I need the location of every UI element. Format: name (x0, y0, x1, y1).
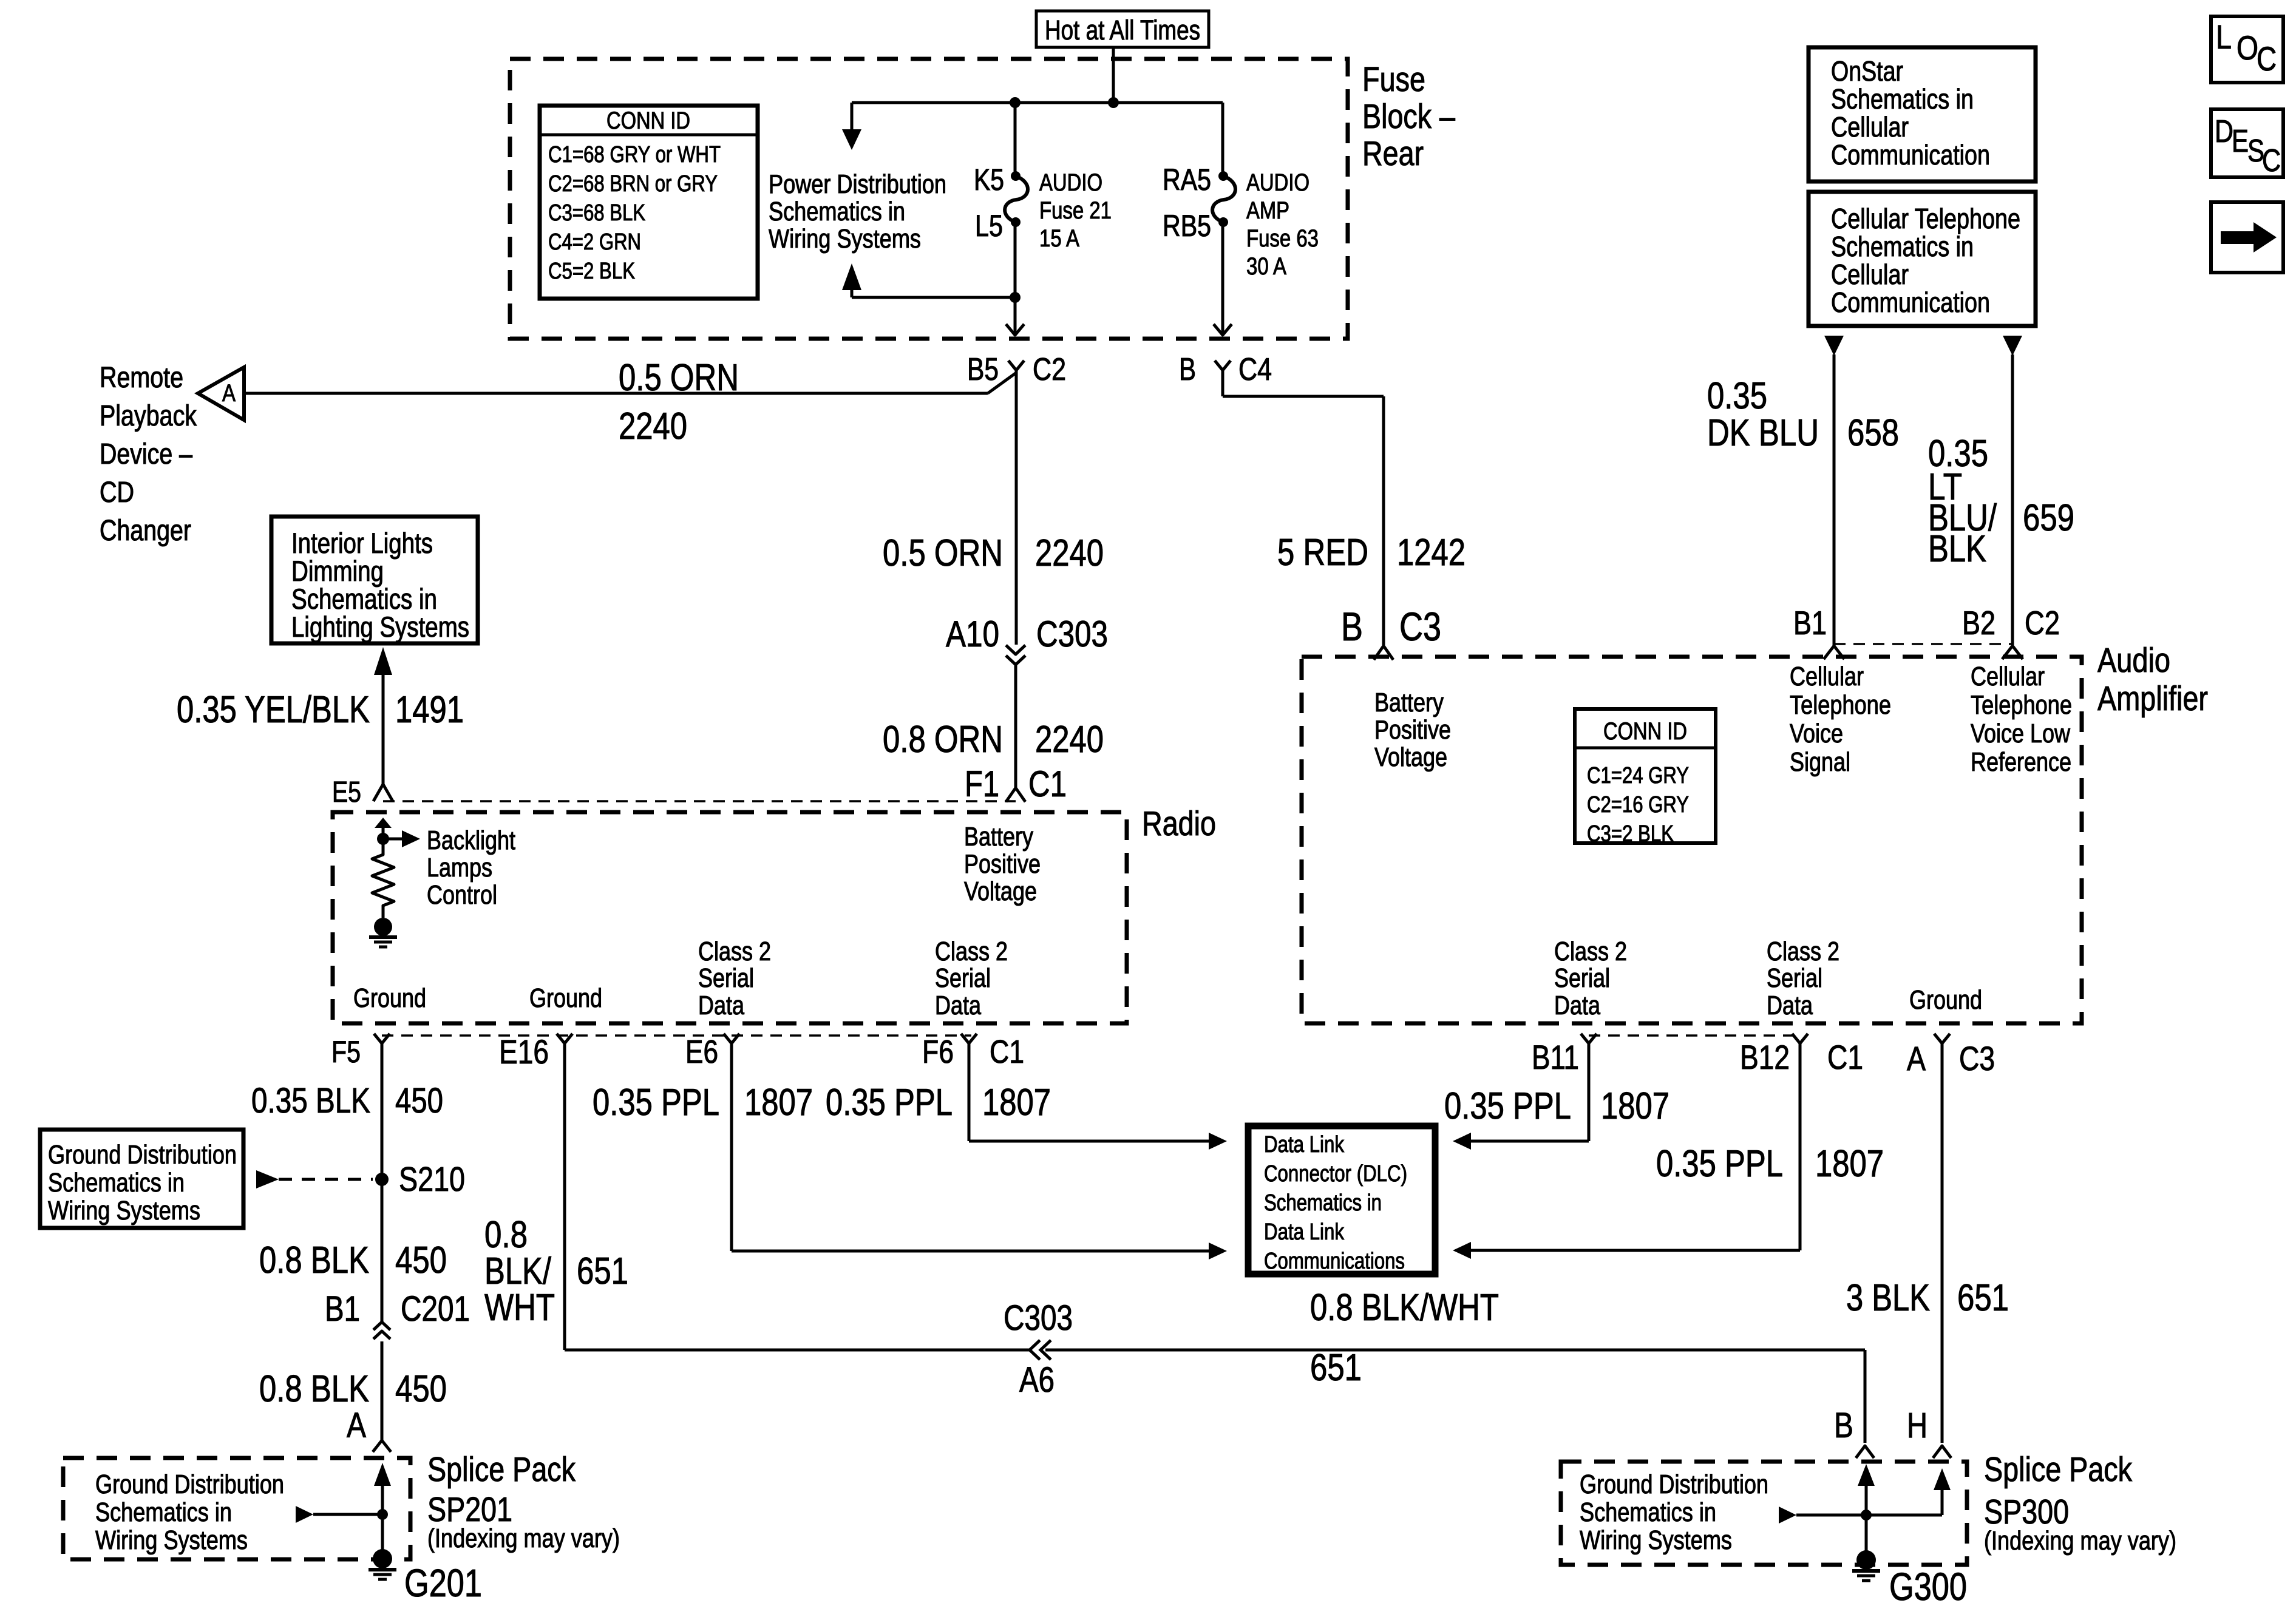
svg-text:C1=24 GRY: C1=24 GRY (1587, 763, 1689, 788)
svg-text:Wiring Systems: Wiring Systems (769, 224, 921, 254)
svg-text:Schematics in: Schematics in (1831, 231, 1974, 262)
svg-text:Lighting Systems: Lighting Systems (291, 611, 469, 643)
svg-text:Block –: Block – (1362, 97, 1455, 136)
svg-text:O: O (2237, 29, 2258, 67)
svg-text:Voltage: Voltage (1374, 742, 1447, 772)
svg-text:B2: B2 (1962, 604, 1995, 642)
svg-text:OnStar: OnStar (1831, 55, 1903, 87)
svg-text:Cellular Telephone: Cellular Telephone (1831, 203, 2020, 234)
svg-text:0.35 PPL: 0.35 PPL (1444, 1085, 1571, 1127)
svg-text:(Indexing may vary): (Indexing may vary) (1984, 1526, 2176, 1556)
svg-text:Audio: Audio (2097, 641, 2170, 680)
svg-text:Serial: Serial (935, 963, 991, 993)
svg-text:B11: B11 (1532, 1038, 1579, 1076)
svg-text:Fuse: Fuse (1362, 60, 1425, 99)
svg-text:Class 2: Class 2 (935, 937, 1008, 966)
svg-text:Lamps: Lamps (427, 853, 492, 883)
svg-text:Positive: Positive (1374, 715, 1451, 745)
svg-text:Cellular: Cellular (1831, 259, 1909, 290)
svg-text:Cellular: Cellular (1971, 662, 2045, 691)
svg-text:0.8 BLK/WHT: 0.8 BLK/WHT (1310, 1287, 1499, 1329)
svg-text:659: 659 (2023, 497, 2074, 539)
svg-text:1807: 1807 (744, 1082, 813, 1124)
svg-text:1807: 1807 (1815, 1143, 1884, 1185)
svg-text:Telephone: Telephone (1971, 690, 2072, 720)
svg-text:L: L (2216, 18, 2232, 56)
svg-text:A: A (1907, 1039, 1926, 1077)
svg-text:0.8 BLK: 0.8 BLK (259, 1368, 369, 1410)
svg-text:AUDIO: AUDIO (1246, 169, 1309, 196)
svg-text:2240: 2240 (1035, 532, 1104, 574)
svg-text:C2=68 BRN or GRY: C2=68 BRN or GRY (548, 171, 718, 197)
svg-text:0.8 ORN: 0.8 ORN (883, 719, 1003, 761)
svg-text:C4: C4 (1238, 352, 1272, 387)
svg-text:Cellular: Cellular (1790, 662, 1864, 691)
svg-text:A10: A10 (946, 614, 999, 654)
svg-text:Fuse 21: Fuse 21 (1039, 197, 1112, 224)
svg-text:RB5: RB5 (1163, 209, 1211, 243)
svg-text:Voice Low: Voice Low (1971, 719, 2070, 748)
svg-text:C3: C3 (1399, 604, 1441, 649)
svg-text:Battery: Battery (964, 822, 1033, 852)
svg-text:Device –: Device – (100, 438, 192, 470)
svg-text:Playback: Playback (100, 400, 197, 432)
svg-text:Ground: Ground (353, 983, 426, 1013)
svg-text:Schematics in: Schematics in (769, 197, 905, 226)
svg-text:B: B (1179, 352, 1196, 387)
svg-text:5 RED: 5 RED (1277, 532, 1368, 574)
svg-text:L5: L5 (975, 209, 1003, 243)
svg-text:F1: F1 (965, 764, 999, 804)
svg-text:C4=2 GRN: C4=2 GRN (548, 229, 641, 255)
svg-text:B: B (1341, 604, 1363, 649)
svg-text:C2: C2 (2025, 604, 2060, 642)
svg-text:G201: G201 (404, 1561, 482, 1605)
svg-text:A: A (222, 380, 236, 407)
svg-text:BLK/: BLK/ (484, 1250, 552, 1292)
svg-text:E: E (2232, 124, 2249, 159)
svg-text:0.35 PPL: 0.35 PPL (826, 1082, 953, 1124)
svg-text:DK BLU: DK BLU (1707, 412, 1819, 454)
svg-text:Ground Distribution: Ground Distribution (48, 1140, 237, 1170)
svg-text:G300: G300 (1889, 1565, 1967, 1609)
svg-text:Control: Control (427, 880, 497, 910)
svg-text:651: 651 (577, 1250, 628, 1292)
svg-text:Backlight: Backlight (427, 825, 515, 855)
svg-text:C303: C303 (1004, 1298, 1073, 1338)
svg-text:C1=68 GRY or WHT: C1=68 GRY or WHT (548, 142, 721, 168)
svg-text:Wiring Systems: Wiring Systems (48, 1196, 200, 1225)
svg-text:A6: A6 (1019, 1360, 1055, 1400)
svg-text:D: D (2215, 114, 2233, 149)
svg-text:Connector (DLC): Connector (DLC) (1264, 1161, 1407, 1187)
svg-text:30 A: 30 A (1246, 253, 1286, 280)
svg-text:CD: CD (100, 476, 134, 509)
svg-text:0.35: 0.35 (1707, 375, 1767, 417)
svg-text:1807: 1807 (1601, 1085, 1669, 1127)
svg-text:Data: Data (1767, 991, 1813, 1020)
svg-text:450: 450 (395, 1081, 443, 1120)
svg-text:651: 651 (1310, 1347, 1362, 1389)
svg-text:Radio: Radio (1142, 804, 1216, 843)
svg-text:Splice Pack: Splice Pack (427, 1450, 576, 1489)
svg-text:B: B (1834, 1406, 1853, 1445)
svg-text:Remote: Remote (100, 362, 183, 394)
svg-text:Rear: Rear (1362, 134, 1424, 173)
svg-text:0.35 YEL/BLK: 0.35 YEL/BLK (177, 689, 370, 731)
svg-text:Data: Data (698, 991, 744, 1020)
svg-text:C1: C1 (1827, 1038, 1863, 1076)
svg-text:Power Distribution: Power Distribution (769, 169, 946, 199)
svg-text:Positive: Positive (964, 849, 1041, 879)
svg-text:E16: E16 (499, 1032, 549, 1071)
svg-text:3 BLK: 3 BLK (1846, 1277, 1930, 1319)
svg-text:C303: C303 (1036, 614, 1108, 654)
svg-text:C201: C201 (401, 1289, 470, 1329)
svg-text:Data Link: Data Link (1264, 1132, 1345, 1158)
svg-text:S210: S210 (399, 1160, 465, 1199)
svg-text:0.5 ORN: 0.5 ORN (619, 357, 739, 399)
svg-text:Schematics in: Schematics in (1580, 1497, 1716, 1527)
svg-text:Communications: Communications (1264, 1249, 1405, 1274)
svg-text:(Indexing may vary): (Indexing may vary) (427, 1524, 620, 1553)
svg-text:C3: C3 (1959, 1039, 1995, 1077)
svg-text:CONN ID: CONN ID (1603, 718, 1687, 745)
svg-text:C3=68 BLK: C3=68 BLK (548, 200, 645, 226)
svg-text:Ground Distribution: Ground Distribution (1580, 1470, 1768, 1499)
svg-text:Hot at All Times: Hot at All Times (1045, 15, 1200, 46)
svg-text:0.35 PPL: 0.35 PPL (593, 1082, 719, 1124)
svg-text:Communication: Communication (1831, 286, 1990, 318)
svg-text:2240: 2240 (619, 405, 687, 447)
svg-text:Splice Pack: Splice Pack (1984, 1450, 2132, 1489)
svg-text:AUDIO: AUDIO (1039, 169, 1102, 196)
svg-text:C1: C1 (990, 1034, 1024, 1070)
svg-text:C5=2 BLK: C5=2 BLK (548, 259, 635, 284)
svg-text:Schematics in: Schematics in (95, 1497, 232, 1527)
svg-text:B1: B1 (325, 1289, 360, 1329)
svg-text:Serial: Serial (1554, 963, 1610, 993)
svg-text:Battery: Battery (1374, 688, 1444, 717)
svg-text:RA5: RA5 (1163, 163, 1211, 197)
svg-text:0.5 ORN: 0.5 ORN (883, 532, 1003, 574)
svg-text:C2: C2 (1033, 352, 1066, 387)
svg-text:Serial: Serial (1767, 963, 1822, 993)
svg-text:C2=16 GRY: C2=16 GRY (1587, 792, 1689, 818)
svg-text:Telephone: Telephone (1790, 690, 1891, 720)
svg-text:Schematics in: Schematics in (1264, 1190, 1382, 1216)
svg-text:1491: 1491 (395, 689, 464, 731)
svg-text:WHT: WHT (484, 1287, 555, 1329)
svg-text:C: C (2257, 39, 2277, 78)
svg-text:651: 651 (1957, 1277, 2009, 1319)
svg-text:F5: F5 (331, 1035, 361, 1069)
svg-text:15 A: 15 A (1039, 225, 1079, 252)
svg-text:BLK: BLK (1928, 528, 1986, 570)
svg-text:Schematics in: Schematics in (48, 1168, 185, 1198)
svg-text:B12: B12 (1740, 1038, 1790, 1076)
svg-text:C3=2 BLK: C3=2 BLK (1587, 821, 1674, 847)
svg-text:Class 2: Class 2 (698, 937, 771, 966)
svg-text:450: 450 (395, 1368, 447, 1410)
svg-text:Signal: Signal (1790, 747, 1850, 777)
svg-text:0.8 BLK: 0.8 BLK (259, 1239, 369, 1281)
svg-text:1242: 1242 (1397, 532, 1466, 574)
svg-text:658: 658 (1847, 412, 1899, 454)
svg-text:Class 2: Class 2 (1767, 937, 1839, 966)
svg-text:Fuse 63: Fuse 63 (1246, 225, 1319, 252)
svg-text:Wiring Systems: Wiring Systems (1580, 1525, 1732, 1555)
svg-text:Ground: Ground (529, 983, 602, 1013)
svg-text:C1: C1 (1028, 764, 1067, 804)
svg-text:Data: Data (935, 991, 981, 1020)
svg-text:K5: K5 (974, 163, 1004, 197)
svg-text:2240: 2240 (1035, 719, 1104, 761)
svg-text:Reference: Reference (1971, 747, 2071, 777)
svg-text:B5: B5 (967, 352, 999, 387)
svg-text:0.8: 0.8 (484, 1214, 528, 1256)
svg-text:Ground Distribution: Ground Distribution (95, 1470, 284, 1499)
svg-text:0.35 BLK: 0.35 BLK (251, 1081, 370, 1120)
svg-text:CONN ID: CONN ID (606, 107, 690, 134)
svg-text:F6: F6 (922, 1034, 954, 1070)
svg-text:Schematics in: Schematics in (1831, 83, 1974, 115)
svg-text:Data Link: Data Link (1264, 1219, 1345, 1245)
svg-text:Class 2: Class 2 (1554, 937, 1627, 966)
svg-text:Cellular: Cellular (1831, 111, 1909, 143)
svg-text:C: C (2262, 143, 2281, 178)
svg-text:A: A (347, 1406, 366, 1445)
svg-text:E6: E6 (685, 1034, 718, 1070)
svg-text:Ground: Ground (1909, 985, 1982, 1015)
svg-text:E5: E5 (332, 776, 361, 808)
svg-text:1807: 1807 (982, 1082, 1051, 1124)
svg-text:H: H (1907, 1406, 1927, 1445)
svg-text:Amplifier: Amplifier (2097, 679, 2208, 718)
svg-text:Data: Data (1554, 991, 1600, 1020)
svg-text:Serial: Serial (698, 963, 754, 993)
svg-text:Wiring Systems: Wiring Systems (95, 1525, 248, 1555)
svg-text:Voice: Voice (1790, 719, 1843, 748)
svg-text:Voltage: Voltage (964, 876, 1037, 906)
svg-text:0.35 PPL: 0.35 PPL (1656, 1143, 1783, 1185)
svg-text:Communication: Communication (1831, 139, 1990, 171)
svg-text:Changer: Changer (100, 515, 191, 547)
svg-text:AMP: AMP (1246, 197, 1289, 224)
svg-text:B1: B1 (1793, 604, 1827, 642)
svg-text:450: 450 (395, 1239, 447, 1281)
